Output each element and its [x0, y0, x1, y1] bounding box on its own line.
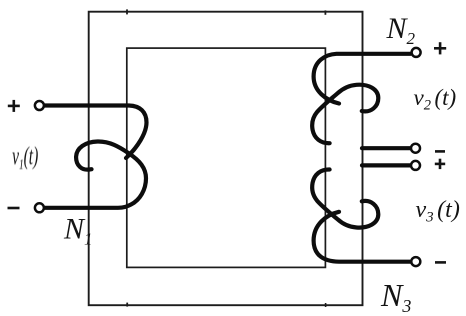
svg-text:v3(t): v3(t): [416, 197, 460, 226]
svg-text:v2(t): v2(t): [414, 85, 457, 114]
svg-text:N3: N3: [380, 277, 411, 316]
svg-text:v1(t): v1(t): [12, 143, 38, 173]
svg-text:N2: N2: [386, 12, 416, 48]
